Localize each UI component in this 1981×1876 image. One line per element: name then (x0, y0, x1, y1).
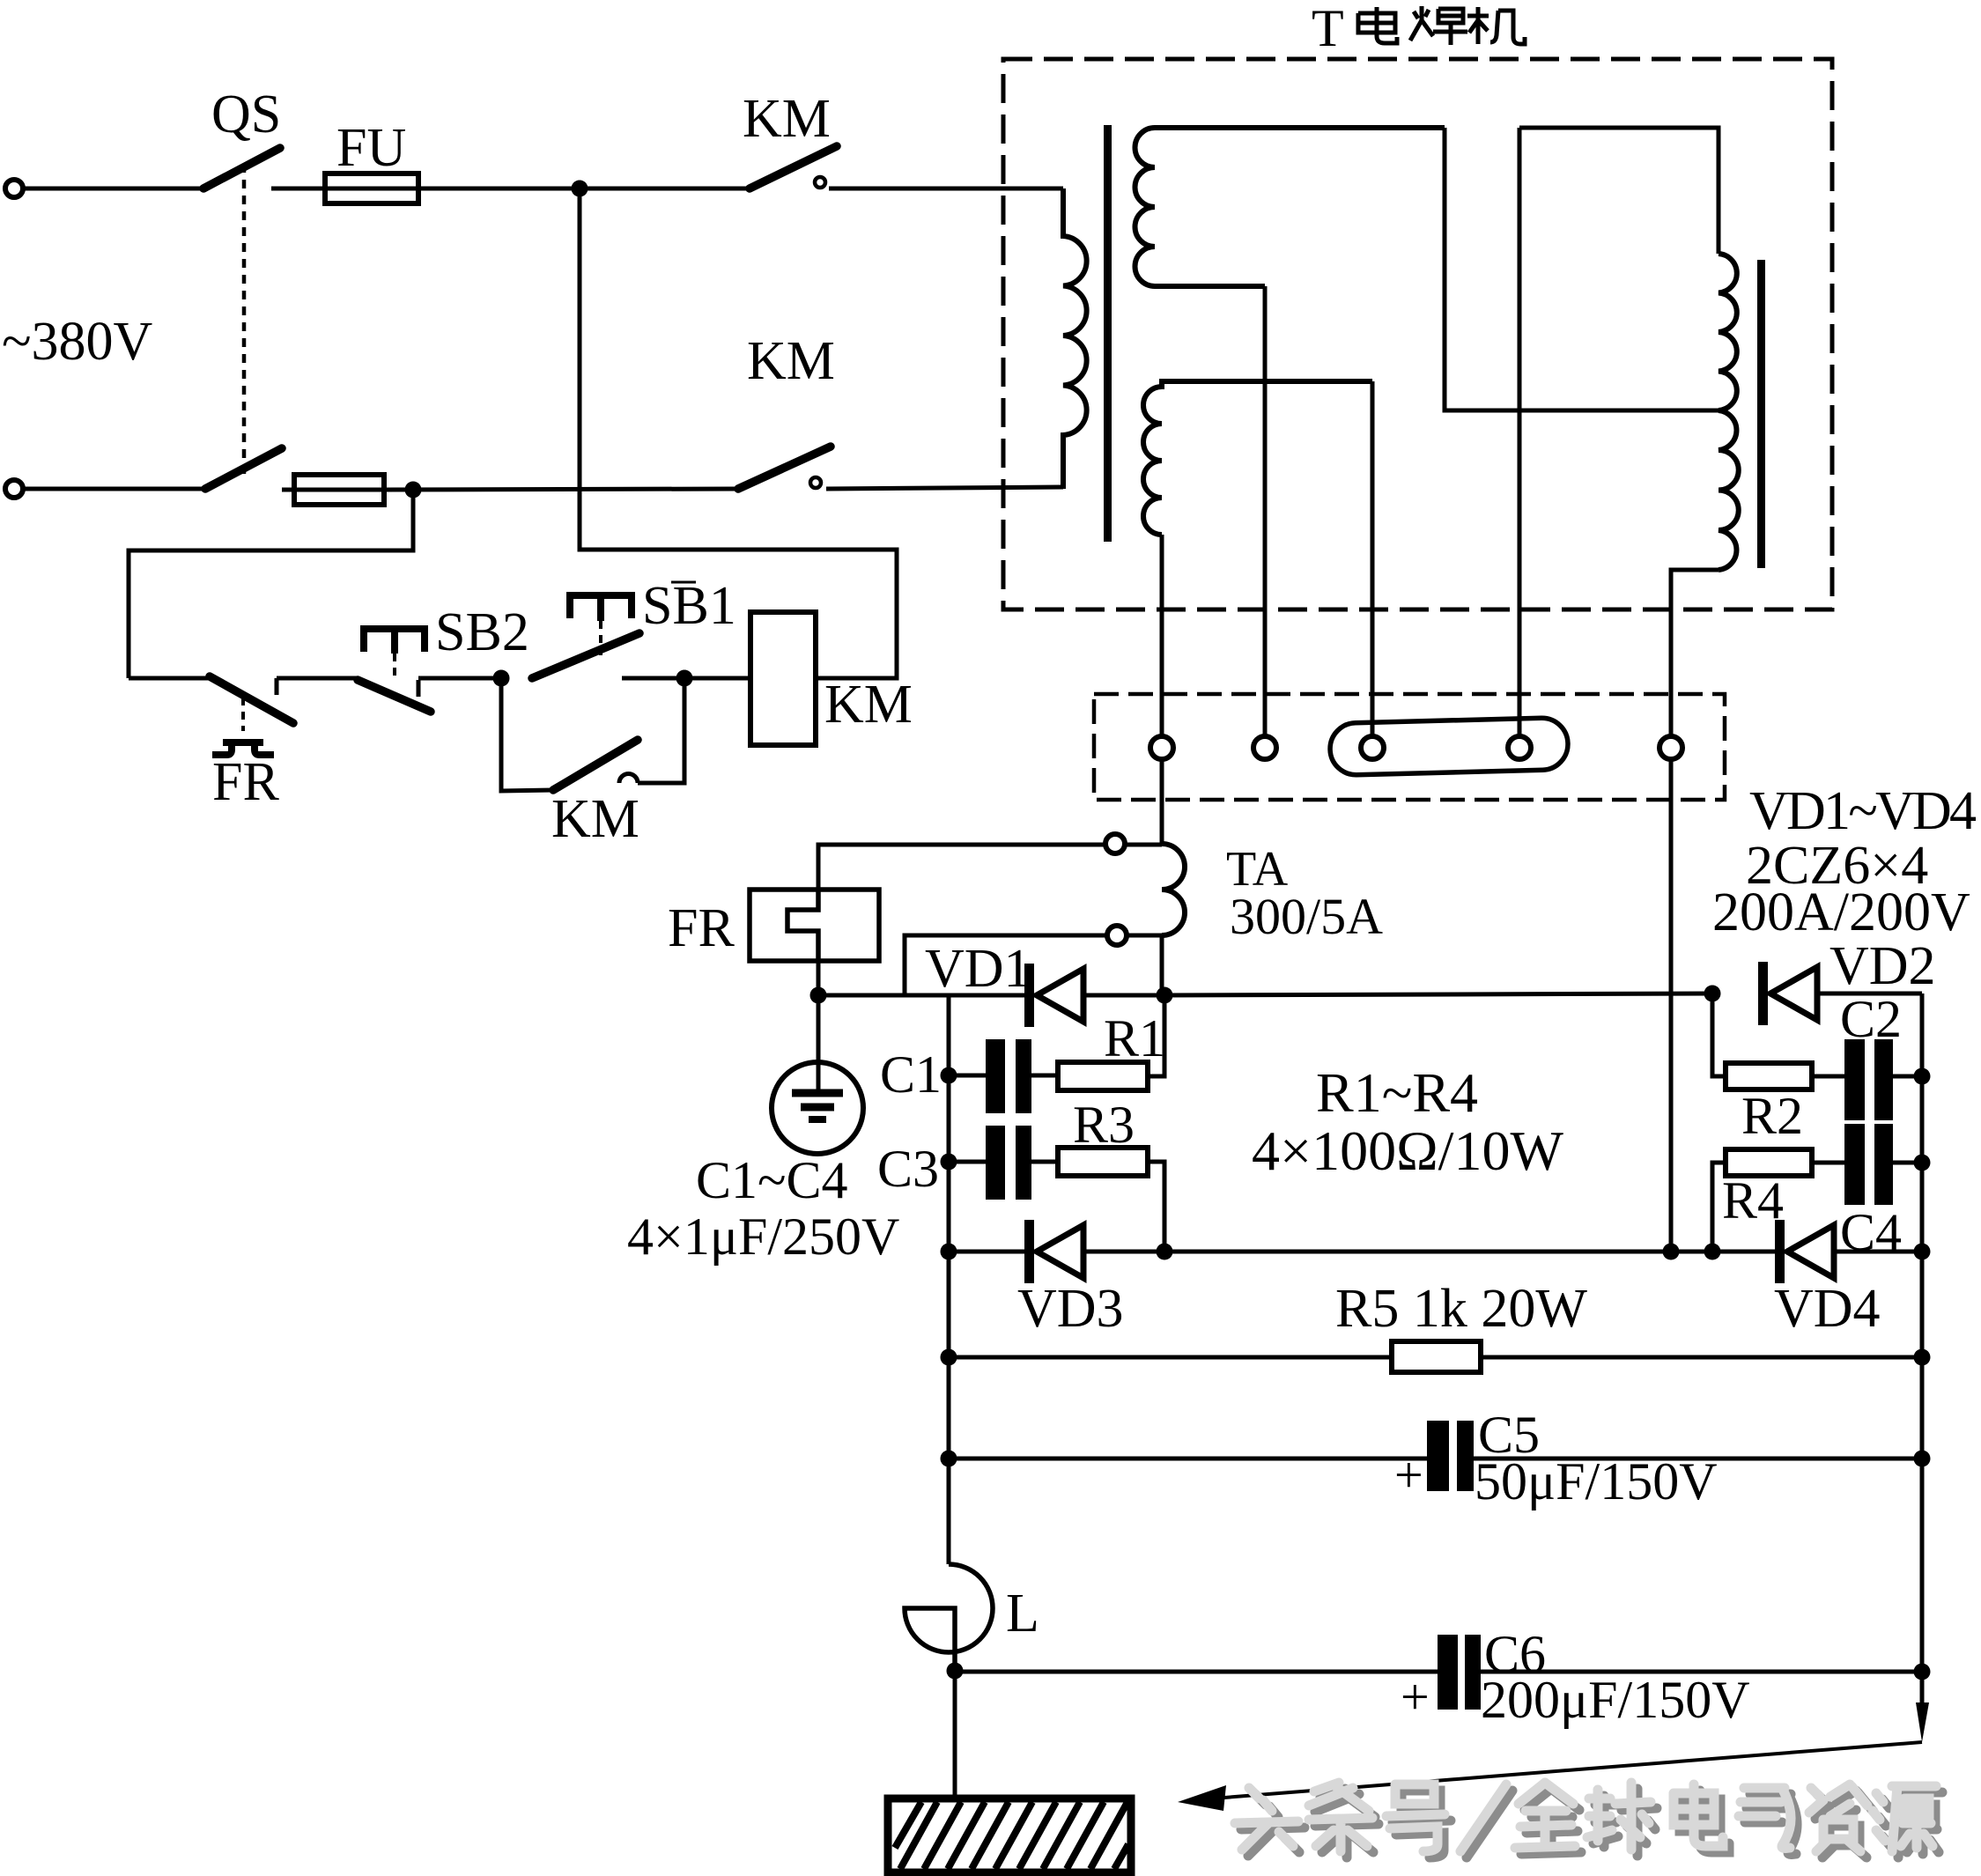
wire VD row long (1164, 993, 1712, 995)
resistor R5 (1392, 1341, 1481, 1372)
transformer primary winding (1063, 188, 1087, 489)
wire (905, 935, 1107, 995)
svg-text:C1: C1 (880, 1045, 942, 1104)
FR heater element (787, 890, 818, 961)
transformer secondary winding 1 (1135, 128, 1445, 286)
svg-text:T: T (1312, 0, 1344, 57)
resistor R4 (1726, 1149, 1812, 1176)
node C1 (941, 1067, 957, 1084)
wire secondary 2 bottom to terminal 1 (1160, 535, 1164, 736)
node R5 left (941, 1349, 957, 1366)
wire right winding top feeder to terminal 4 (1518, 128, 1522, 736)
wire R1 to VD1 node (1148, 995, 1164, 1076)
capacitor C3 (949, 1126, 1058, 1200)
wire (282, 488, 294, 492)
node B (405, 482, 422, 499)
node VD2 branch (1704, 986, 1721, 1002)
node FR-earth (810, 987, 827, 1004)
wire (580, 188, 897, 678)
switch QS pole 2 (205, 448, 282, 489)
wire (1833, 1250, 1922, 1254)
terminal strip dashed box (1094, 694, 1725, 800)
svg-text:R2: R2 (1741, 1087, 1803, 1145)
node T5 bottom (1663, 1244, 1680, 1260)
svg-text:VD1~VD4: VD1~VD4 (1749, 781, 1977, 841)
node R5 right (1914, 1349, 1931, 1366)
diode VD2 (1758, 962, 1817, 1025)
node C3 (941, 1154, 957, 1171)
resistor R2 (1726, 1063, 1812, 1089)
wire (23, 187, 203, 191)
contactor KM main contact 1 (750, 146, 837, 188)
svg-text:KM: KM (824, 675, 913, 735)
wire (580, 187, 750, 191)
transformer secondary winding 2 (1143, 381, 1372, 535)
watermark text 头条号／全球电气资源 (1235, 1783, 1942, 1858)
node C (493, 670, 510, 687)
svg-text:R3: R3 (1073, 1096, 1135, 1154)
diode VD3 (1024, 1220, 1083, 1283)
shorting link (stadium) (1329, 717, 1568, 775)
node A (572, 181, 588, 197)
svg-text:4×100Ω/10W: 4×100Ω/10W (1252, 1119, 1563, 1182)
wire (1083, 993, 1164, 998)
svg-text:300/5A: 300/5A (1230, 888, 1383, 945)
capacitor C4 (1812, 1124, 1922, 1205)
wire L to electrode (953, 1671, 957, 1798)
SB1 linkage dashed (599, 621, 602, 655)
svg-text:KM: KM (743, 89, 831, 149)
wire R5 row (949, 1355, 1392, 1360)
svg-text:200A/200V: 200A/200V (1712, 883, 1970, 942)
diode VD4 (1775, 1220, 1834, 1283)
wire (622, 676, 684, 681)
wire VD1 row left (818, 993, 1025, 998)
contactor coil KM (750, 612, 816, 745)
capacitor C6 (955, 1635, 1922, 1710)
node VD1 (1157, 987, 1173, 1004)
svg-text:R1: R1 (1104, 1009, 1165, 1067)
label 电焊机 (drawn strokes) (1358, 6, 1525, 45)
FR reset actuator symbol (212, 742, 274, 755)
terminal L2 (5, 480, 23, 498)
svg-text:+: + (1394, 1446, 1423, 1503)
svg-text:KM: KM (747, 331, 835, 391)
diode VD1 (1024, 964, 1083, 1027)
wire (1519, 128, 1719, 254)
welding cable diagonal with arrow (1178, 1742, 1922, 1811)
svg-text:VD4: VD4 (1774, 1279, 1881, 1339)
wire (129, 676, 210, 681)
wire (818, 845, 1105, 890)
terminal 5 (1659, 736, 1682, 759)
wire secondary 1 tap to terminal 2 (1263, 286, 1268, 736)
svg-text:R5 1k 20W: R5 1k 20W (1335, 1279, 1587, 1339)
thermal relay FR heater box (750, 890, 879, 961)
svg-text:4×1μF/250V: 4×1μF/250V (627, 1208, 899, 1266)
wire TA down to VD node (1160, 935, 1164, 995)
svg-text:R4: R4 (1722, 1171, 1784, 1230)
svg-text:200μF/150V: 200μF/150V (1481, 1671, 1750, 1729)
wire (418, 187, 580, 191)
transformer right secondary winding lower half (1719, 410, 1739, 570)
wire (1816, 992, 1922, 996)
terminal 4 (1508, 736, 1531, 759)
wire terminal1 down (1160, 759, 1164, 844)
earth symbol (772, 1062, 863, 1154)
svg-text:C1~C4: C1~C4 (696, 1151, 848, 1209)
wire (271, 187, 325, 191)
node C5 left (941, 1451, 957, 1467)
svg-text:C4: C4 (1840, 1203, 1902, 1261)
wire (638, 678, 684, 783)
wire (817, 995, 821, 1064)
wire (684, 676, 750, 681)
QS linkage dashed line (242, 164, 247, 476)
node C6 left (947, 1663, 964, 1680)
transformer core 2 (1757, 260, 1765, 568)
wire (817, 961, 821, 995)
pushbutton SB2 NC contact (358, 680, 431, 712)
node R3 joint (1157, 1244, 1173, 1260)
FR linkage dashed (241, 698, 245, 731)
capacitor C5 (949, 1421, 1922, 1491)
contactor KM main contact 2 (738, 447, 831, 489)
output arrow down (1916, 1672, 1929, 1742)
svg-text:KM: KM (551, 789, 639, 849)
thermal relay FR NC contact (210, 676, 293, 723)
capacitor C2 (1812, 1039, 1922, 1120)
resistor R1 (1058, 1062, 1148, 1090)
node C4 right (1914, 1155, 1931, 1171)
svg-text:50μF/150V: 50μF/150V (1475, 1452, 1718, 1510)
svg-text:SB1: SB1 (642, 576, 736, 636)
current transformer TA winding (1162, 844, 1185, 935)
wire (501, 678, 553, 791)
svg-text:SB2: SB2 (435, 602, 529, 662)
TA terminal circle top (1105, 834, 1125, 853)
right bus (1920, 993, 1925, 1673)
capacitor C1 (949, 1039, 1058, 1113)
node D (676, 670, 693, 687)
transformer T enclosure dashed box (1003, 59, 1832, 609)
svg-text:VD3: VD3 (1017, 1279, 1124, 1339)
transformer core 1 (1104, 125, 1112, 542)
switch QS pole 1 (203, 148, 280, 188)
TA terminal circle bottom (1107, 926, 1127, 945)
node C2 right (1914, 1068, 1931, 1085)
svg-text:VD1: VD1 (925, 939, 1031, 999)
svg-text:L: L (1006, 1584, 1039, 1643)
terminal L1 (5, 180, 23, 197)
svg-text:VD2: VD2 (1829, 936, 1936, 996)
wire secondary 2 top to terminal 3 (1371, 381, 1375, 736)
transformer right secondary winding upper half (1719, 254, 1737, 410)
wire R2 branch (1712, 993, 1726, 1076)
wire terminal5 down (1669, 759, 1674, 1252)
wire middle tap (1445, 128, 1719, 410)
wire (826, 487, 1063, 489)
svg-text:C2: C2 (1840, 990, 1902, 1048)
svg-text:FU: FU (336, 118, 406, 178)
node C6 right (1914, 1664, 1931, 1680)
wire (384, 489, 738, 490)
node VD4 right (1914, 1244, 1931, 1260)
wire R3 to VD3 node (1148, 1162, 1164, 1252)
terminal 1 (1150, 736, 1173, 759)
wire R4 branch (1712, 1163, 1726, 1252)
node VD3 left (941, 1244, 957, 1260)
workpiece electrode (hatched) (888, 1798, 1131, 1872)
svg-text:~380V: ~380V (2, 312, 153, 372)
SB2 linkage dashed (393, 654, 396, 680)
wire right winding bottom to terminal 5 (1671, 570, 1719, 736)
svg-text:R1~R4: R1~R4 (1316, 1061, 1478, 1124)
wire (129, 490, 413, 678)
C-bus left vertical (947, 995, 951, 1564)
node C5 right (1914, 1451, 1931, 1467)
wire (23, 487, 205, 491)
wire (1671, 1250, 1776, 1254)
inductor L single loop (905, 1564, 993, 1671)
fuse FU1 (325, 174, 418, 203)
pushbutton SB1 NO contact (532, 633, 639, 678)
resistor R3 (1058, 1148, 1148, 1176)
fuse FU2 (294, 475, 384, 505)
contactor KM auxiliary NO contact (553, 740, 638, 790)
svg-text:+: + (1401, 1668, 1430, 1725)
SB1 button cap (570, 595, 632, 621)
wire VD3 row left (949, 1250, 1025, 1254)
svg-text:FR: FR (212, 752, 279, 812)
svg-text:C3: C3 (877, 1140, 939, 1198)
svg-text:FR: FR (668, 898, 735, 958)
wire (829, 187, 1063, 191)
stray mark (671, 581, 696, 584)
wire (1127, 934, 1162, 938)
wire (1125, 843, 1162, 847)
terminal 2 (1253, 736, 1276, 759)
terminal 3 (1361, 736, 1384, 759)
svg-text:QS: QS (211, 85, 281, 144)
wire (418, 676, 501, 681)
SB2 button cap (364, 629, 425, 654)
wire (1083, 1250, 1671, 1254)
wire (277, 676, 358, 681)
wire (1481, 1355, 1922, 1360)
node R4 joint (1704, 1244, 1721, 1260)
